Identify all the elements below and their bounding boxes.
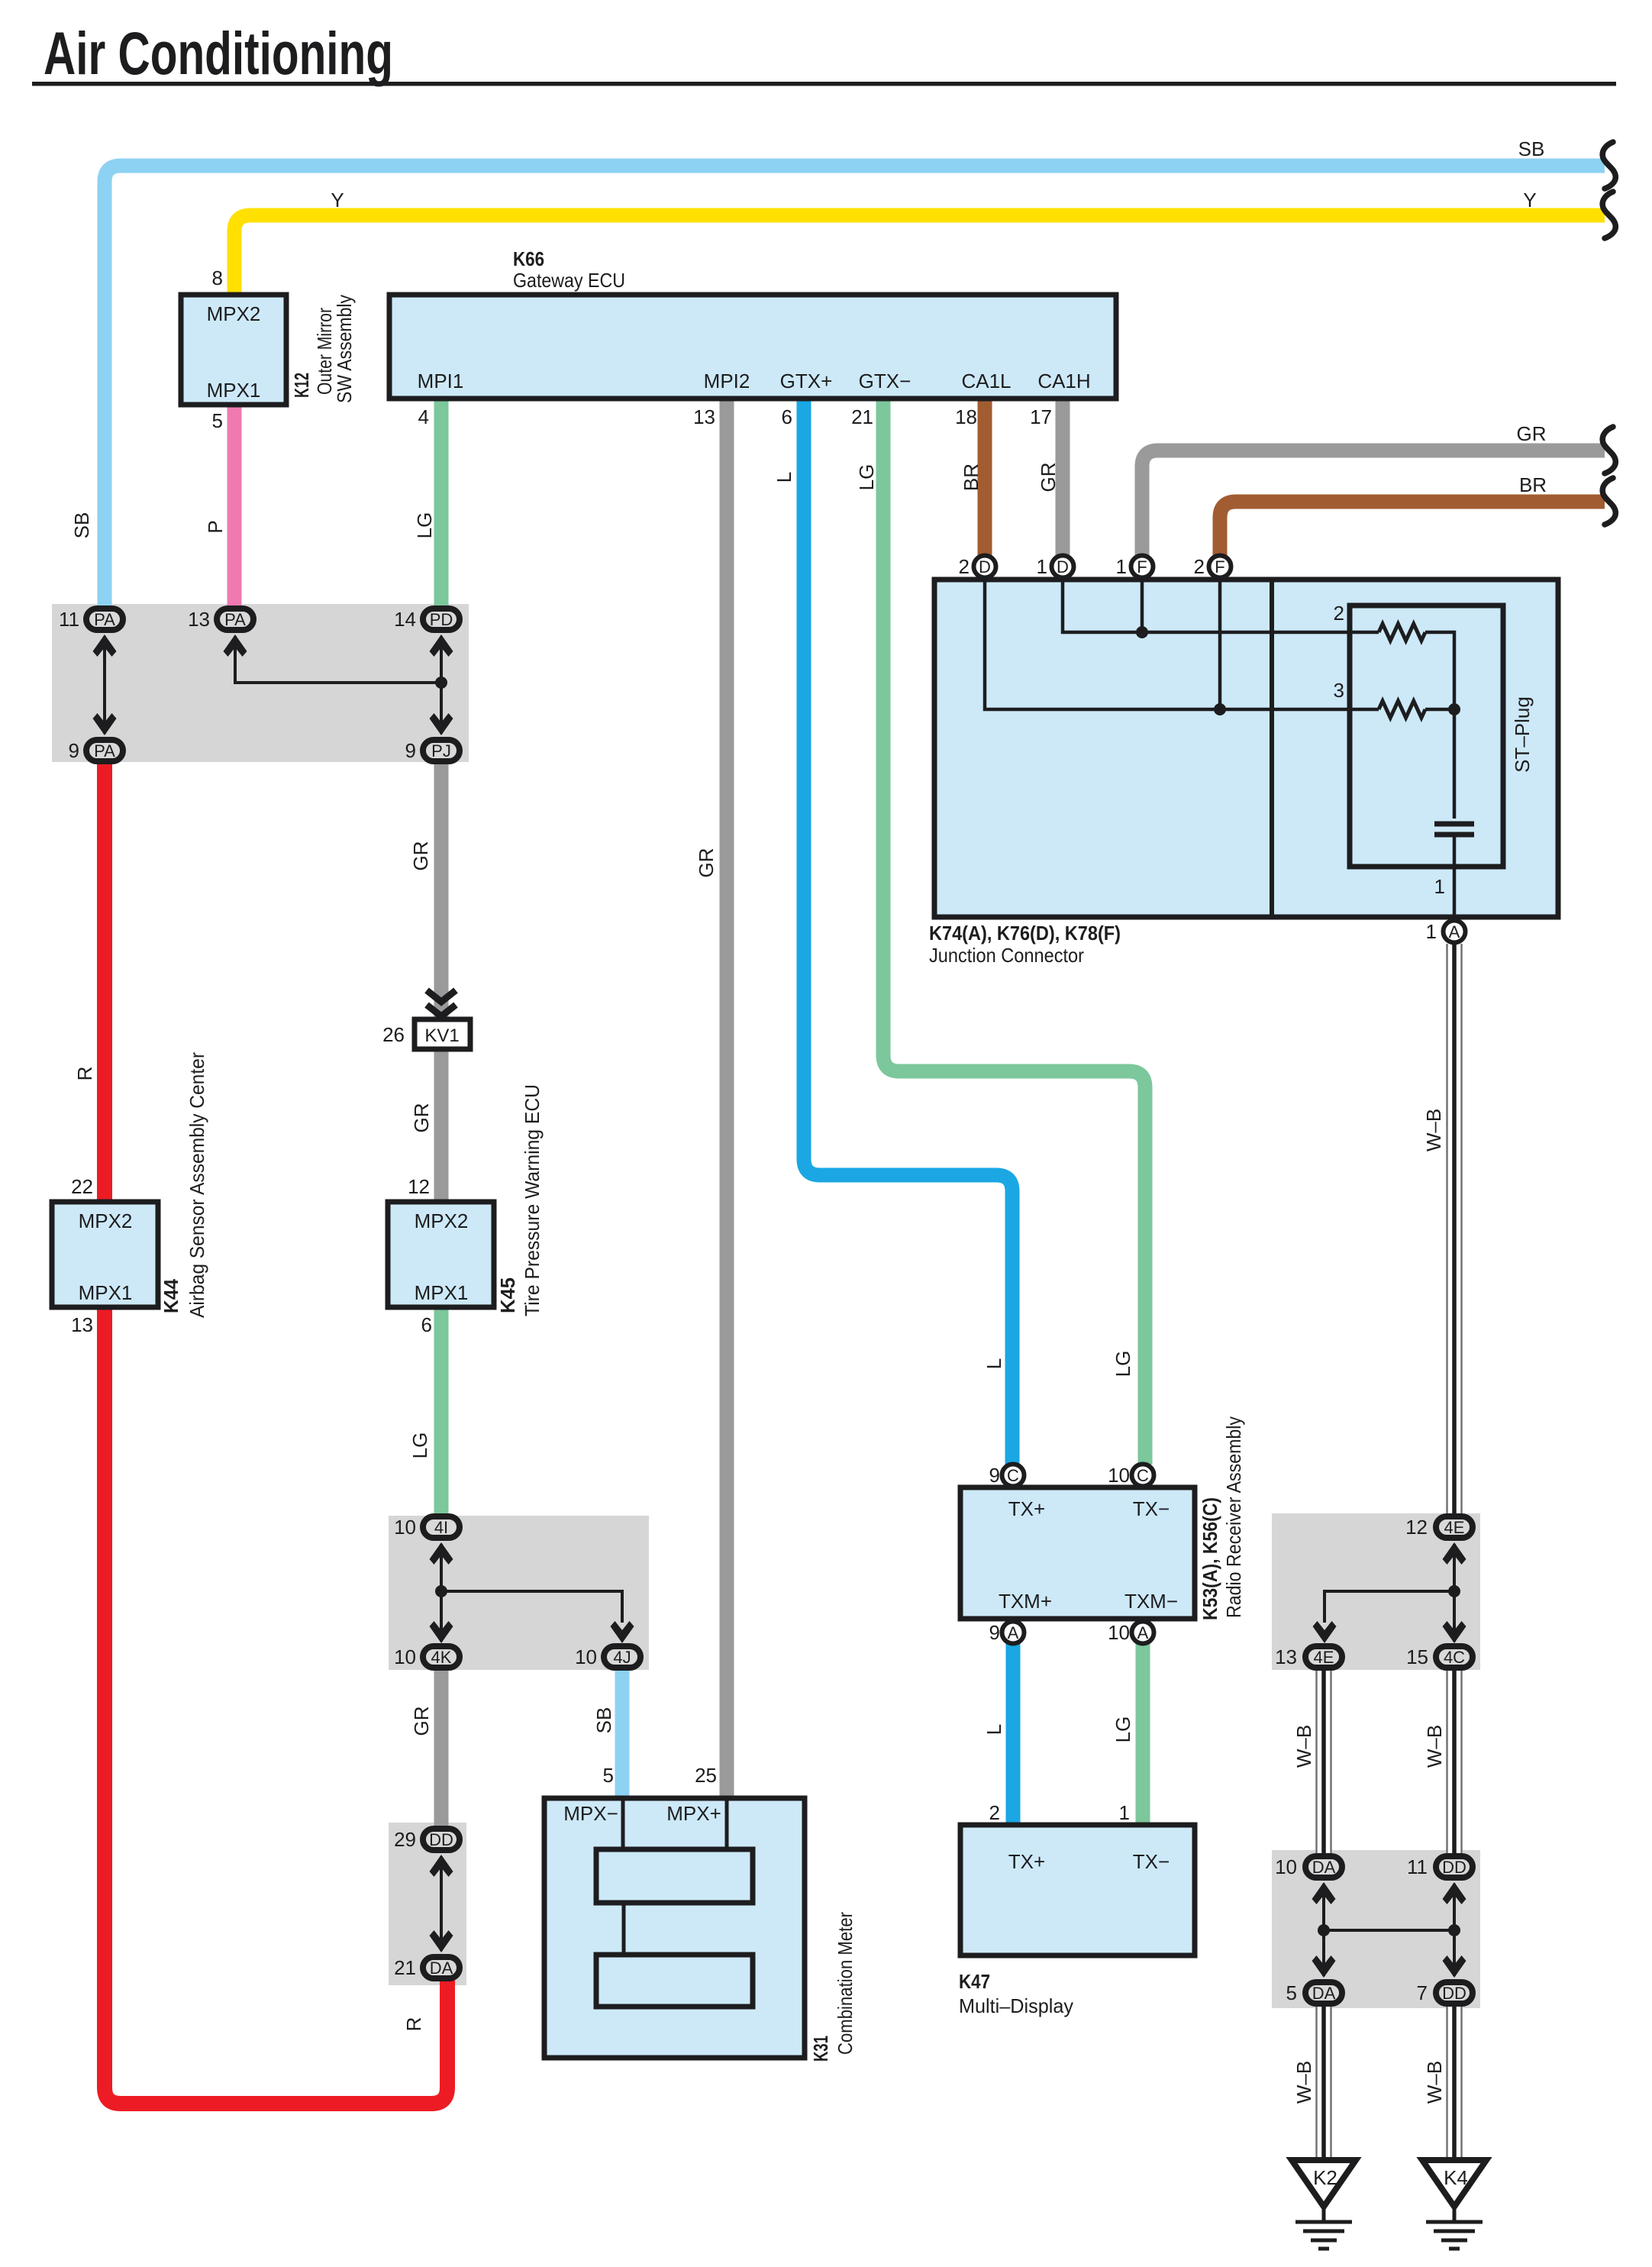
capacitor ST-Plug plate bottom (1434, 832, 1474, 838)
svg-text:W–B: W–B (1423, 2061, 1446, 2104)
wire GR 4K to DD 29 (434, 1668, 449, 1827)
junction circle A pin 1 (1444, 921, 1466, 943)
svg-text:C: C (1007, 1466, 1019, 1485)
svg-text:Junction Connector: Junction Connector (929, 944, 1084, 967)
svg-text:Tire Pressure Warning ECU: Tire Pressure Warning ECU (521, 1084, 544, 1316)
svg-text:DA: DA (1312, 1984, 1336, 2003)
splice node link DA-DD (1324, 1929, 1454, 1932)
splice arrows PA11-PA9 (93, 635, 117, 735)
wire GR CA1H pin 17 to junction D (1056, 397, 1070, 556)
splice arrows DA10-DA5 (1312, 1882, 1336, 1978)
svg-text:Multi–Display: Multi–Display (959, 1994, 1073, 2017)
svg-text:21: 21 (394, 1956, 416, 1979)
svg-text:C: C (1137, 1466, 1149, 1485)
wire W-B junction A to 4E 12 (1447, 944, 1462, 1515)
junction wire from F pin2 (1218, 580, 1222, 709)
junction wire from D pin1 row2 (1063, 580, 1379, 632)
svg-text:K66: K66 (513, 247, 544, 270)
svg-text:MPX+: MPX+ (666, 1802, 721, 1825)
svg-text:W–B: W–B (1423, 1725, 1446, 1768)
svg-text:Combination Meter: Combination Meter (834, 1912, 857, 2055)
svg-text:A: A (1449, 922, 1460, 941)
connector oval PA pin 9 (86, 740, 123, 761)
ground K4 (1422, 2160, 1486, 2249)
connector oval DD pin 7 (1436, 1982, 1473, 2004)
svg-text:DD: DD (429, 1830, 453, 1849)
junction connector K74/K76/K78 body (934, 580, 1558, 917)
break symbol SB wire (1602, 142, 1615, 189)
wire LG GTX- pin 21 to radio 10 C (883, 397, 1145, 1465)
connector oval PA pin 11 (86, 609, 123, 630)
meter K31 Combination Meter (544, 1798, 805, 2058)
svg-text:5: 5 (1286, 1981, 1297, 2004)
svg-text:GR: GR (695, 848, 718, 878)
connector oval 4E pin 12 (1436, 1516, 1473, 1538)
wire SB from pin 11 PA to right edge (105, 166, 1605, 606)
svg-text:Y: Y (1523, 189, 1536, 212)
svg-text:P: P (204, 520, 227, 533)
svg-text:CA1L: CA1L (961, 370, 1011, 392)
svg-text:12: 12 (408, 1175, 430, 1198)
svg-text:TX−: TX− (1133, 1497, 1170, 1520)
svg-text:LG: LG (855, 464, 878, 491)
svg-text:1: 1 (1119, 1801, 1130, 1824)
break symbol BR wire (1602, 478, 1615, 525)
svg-text:D: D (1057, 557, 1069, 576)
svg-text:K12: K12 (290, 373, 313, 398)
svg-text:GR: GR (1037, 463, 1060, 492)
connector oval DD pin 11 (1436, 1856, 1473, 1878)
harness band PA/PD/PJ (52, 604, 469, 762)
svg-text:TX+: TX+ (1008, 1497, 1045, 1520)
svg-text:PD: PD (430, 610, 453, 629)
svg-text:F: F (1215, 557, 1224, 576)
K31 internal link (622, 1903, 626, 1955)
svg-text:15: 15 (1406, 1645, 1428, 1668)
connector oval DD pin 29 (423, 1829, 460, 1850)
wire LG radio TXM- to K47 TX- (1136, 1643, 1150, 1826)
wire W-B DD 7 to ground K4 (1447, 2005, 1462, 2160)
svg-text:10: 10 (394, 1516, 416, 1539)
svg-text:2: 2 (989, 1801, 1000, 1824)
capacitor ST-Plug plate top (1434, 822, 1474, 827)
svg-text:DA: DA (1312, 1858, 1336, 1877)
svg-text:1: 1 (1116, 555, 1127, 578)
splice arrow branch to 4J (441, 1591, 634, 1643)
svg-text:GTX−: GTX− (859, 370, 912, 392)
svg-text:SB: SB (1518, 137, 1545, 160)
connector oval 4E pin 13 (1305, 1646, 1342, 1668)
svg-text:12: 12 (1405, 1516, 1428, 1539)
svg-text:11: 11 (1407, 1855, 1428, 1878)
svg-text:LG: LG (1112, 1716, 1134, 1743)
svg-text:K53(A), K56(C): K53(A), K56(C) (1199, 1497, 1221, 1620)
wire GR MPI2 pin 13 to K31 pin 25 (720, 397, 734, 1800)
svg-text:PA: PA (94, 610, 115, 629)
svg-text:LG: LG (1112, 1351, 1134, 1377)
harness band 4I/4K/4J (389, 1516, 649, 1670)
wire L radio TXM+ to K47 TX+ (1006, 1643, 1021, 1826)
svg-text:GR: GR (410, 1103, 433, 1133)
connector K12 Outer Mirror SW Assembly (181, 295, 286, 405)
junction wire from D pin2 row3 (985, 580, 1379, 709)
svg-text:25: 25 (695, 1764, 717, 1787)
display K47 Multi-Display (960, 1825, 1195, 1955)
harness band DA/DD right (1272, 1850, 1480, 2008)
svg-text:MPX1: MPX1 (207, 379, 261, 402)
svg-text:PA: PA (224, 610, 246, 629)
wire SB 4J to K31 pin 5 (615, 1668, 630, 1800)
break symbol Y wire (1602, 192, 1615, 238)
junction wire resistor2 to vertical (1425, 632, 1454, 819)
svg-text:4: 4 (418, 405, 429, 428)
title underline rule (32, 82, 1616, 86)
svg-text:MPX−: MPX− (563, 1802, 618, 1825)
junction circle D pin 1 (1052, 556, 1074, 578)
splice arrows 4I-4K with node (430, 1542, 453, 1643)
svg-text:GR: GR (410, 1707, 433, 1736)
svg-text:10: 10 (1108, 1464, 1130, 1487)
svg-text:MPX1: MPX1 (79, 1281, 133, 1304)
svg-text:1: 1 (1434, 875, 1445, 898)
svg-text:TX−: TX− (1133, 1850, 1170, 1873)
junction wire resistor3 to vertical (1425, 708, 1454, 712)
svg-text:BR: BR (960, 463, 982, 491)
svg-text:TX+: TX+ (1008, 1850, 1045, 1873)
wire LG MPI1 pin 4 to PD 14 (434, 397, 449, 607)
svg-text:Airbag Sensor Assembly Center: Airbag Sensor Assembly Center (186, 1052, 208, 1318)
junction node F1 row2 (1136, 626, 1148, 638)
svg-text:13: 13 (188, 608, 210, 631)
svg-text:7: 7 (1417, 1981, 1428, 2004)
svg-text:LG: LG (413, 512, 436, 539)
ECU K66 Gateway ECU (389, 295, 1116, 399)
junction wire capacitor to pin 1 (1453, 835, 1457, 919)
harness band DD/DA left (389, 1823, 466, 1985)
svg-text:K74(A), K76(D), K78(F): K74(A), K76(D), K78(F) (929, 922, 1121, 945)
connector oval 4K pin 10 (423, 1646, 460, 1668)
junction connector divider (1270, 580, 1274, 917)
connector oval DA pin 5 (1305, 1982, 1342, 2004)
svg-text:21: 21 (851, 405, 873, 428)
junction wire from F pin1 (1141, 580, 1144, 632)
svg-text:DD: DD (1442, 1858, 1466, 1877)
svg-text:4J: 4J (613, 1648, 631, 1667)
K31 internal lead from pin 25 (725, 1798, 729, 1849)
svg-text:L: L (982, 1724, 1005, 1735)
radio circle C pin 9 (1002, 1465, 1024, 1487)
svg-text:K44: K44 (160, 1278, 182, 1313)
connector K45 Tire Pressure Warning ECU (388, 1202, 494, 1307)
svg-text:6: 6 (421, 1313, 432, 1336)
svg-text:5: 5 (603, 1764, 614, 1787)
svg-text:9: 9 (69, 739, 79, 762)
svg-text:Radio Receiver Assembly: Radio Receiver Assembly (1222, 1416, 1245, 1618)
junction node F2 row3 (1214, 703, 1226, 715)
svg-text:9: 9 (405, 739, 416, 762)
svg-text:PJ: PJ (431, 741, 451, 761)
svg-text:SB: SB (592, 1707, 615, 1734)
svg-text:K4: K4 (1444, 2166, 1468, 2189)
svg-text:K47: K47 (959, 1970, 990, 1993)
svg-text:ST–Plug: ST–Plug (1511, 696, 1534, 773)
connector oval PD pin 14 (423, 609, 460, 630)
svg-text:TXM+: TXM+ (999, 1590, 1052, 1613)
svg-text:5: 5 (212, 409, 223, 432)
svg-text:9: 9 (989, 1464, 1000, 1487)
svg-text:17: 17 (1030, 405, 1052, 428)
connector K44 Airbag Sensor Assembly Center (52, 1202, 158, 1307)
svg-text:11: 11 (59, 608, 79, 631)
svg-text:2: 2 (1334, 602, 1344, 625)
K31 internal block upper (596, 1849, 753, 1903)
wire Y from K12 pin 8 to right edge (234, 215, 1605, 296)
resistor ST-Plug row 3 (1379, 701, 1425, 718)
wire W-B 4C 15 to DD 11 (1447, 1669, 1462, 1855)
svg-text:13: 13 (1275, 1645, 1297, 1668)
svg-text:4E: 4E (1444, 1518, 1465, 1537)
radio circle C pin 10 (1132, 1465, 1154, 1487)
svg-text:Gateway ECU: Gateway ECU (513, 269, 625, 292)
wire R from PA 9 down and right to DA 21 (105, 763, 447, 2104)
svg-text:4I: 4I (434, 1518, 448, 1537)
svg-text:A: A (1008, 1623, 1019, 1642)
svg-text:D: D (979, 557, 991, 576)
wire LG K45 pin 6 to 4I (434, 1306, 449, 1517)
svg-text:10: 10 (575, 1645, 597, 1668)
svg-text:3: 3 (1334, 679, 1344, 702)
junction circle D pin 2 (974, 556, 996, 578)
svg-text:GTX+: GTX+ (780, 370, 833, 392)
svg-text:PA: PA (94, 741, 115, 761)
svg-text:10: 10 (1275, 1855, 1297, 1878)
svg-text:TXM−: TXM− (1124, 1590, 1178, 1613)
svg-text:CA1H: CA1H (1037, 370, 1090, 392)
svg-text:SW Assembly: SW Assembly (333, 295, 356, 403)
wire P K12 pin 5 to PA 13 (227, 403, 242, 607)
svg-text:22: 22 (71, 1175, 93, 1198)
svg-text:13: 13 (71, 1313, 93, 1336)
wire W-B DA 5 to ground K2 (1317, 2005, 1331, 2160)
connector oval 4I pin 10 (423, 1516, 460, 1538)
svg-text:K31: K31 (809, 2036, 832, 2062)
svg-text:1: 1 (1426, 920, 1437, 943)
connector KV1 box (415, 1019, 470, 1049)
splice arrow branch to 4E13 (1313, 1591, 1455, 1643)
harness band 4E/4C right (1272, 1513, 1480, 1670)
svg-text:SB: SB (70, 512, 93, 539)
svg-text:9: 9 (989, 1621, 1000, 1644)
wire L GTX+ pin 6 to radio 9 C (804, 397, 1012, 1465)
svg-text:L: L (982, 1358, 1005, 1369)
svg-text:F: F (1137, 557, 1147, 576)
svg-text:4E: 4E (1314, 1648, 1334, 1667)
svg-text:GR: GR (409, 841, 432, 871)
splice arrows DD11-DD7 (1443, 1882, 1466, 1978)
svg-text:DD: DD (1442, 1984, 1466, 2003)
svg-text:4K: 4K (431, 1648, 452, 1667)
connector oval PJ pin 9 (423, 740, 460, 761)
svg-text:29: 29 (394, 1828, 416, 1851)
svg-text:A: A (1137, 1623, 1149, 1642)
svg-text:Air Conditioning: Air Conditioning (44, 19, 393, 87)
wire W-B 4E 13 to DA 10 (1317, 1669, 1331, 1855)
resistor ST-Plug row 2 (1379, 624, 1425, 641)
splice arrows DD29-DA21 (430, 1855, 453, 1952)
svg-text:26: 26 (382, 1023, 405, 1046)
svg-text:BR: BR (1519, 473, 1547, 496)
svg-text:W–B: W–B (1292, 2061, 1315, 2104)
double chevron into KV1 (427, 990, 456, 1016)
svg-text:DA: DA (430, 1959, 453, 1978)
connector oval 4J pin 10 (604, 1646, 640, 1668)
svg-text:R: R (402, 2017, 425, 2032)
svg-text:MPI1: MPI1 (418, 370, 464, 392)
connector oval 4C pin 15 (1436, 1646, 1473, 1668)
wire GR KV1 to K45 pin 12 (434, 1048, 449, 1203)
wire GR PJ 9 to KV1 (434, 763, 449, 1020)
radio K53/K56 Radio Receiver Assembly (960, 1487, 1195, 1619)
wire BR CA1L pin 18 to junction D (978, 397, 992, 556)
ST-Plug inner box (1350, 606, 1503, 867)
splice arrows PD14-PJ9 with node (430, 635, 453, 735)
ground K2 (1292, 2160, 1356, 2249)
connector oval PA pin 13 (217, 609, 253, 630)
svg-text:LG: LG (408, 1432, 431, 1459)
svg-text:MPI2: MPI2 (704, 370, 750, 392)
svg-text:R: R (73, 1067, 96, 1081)
radio circle A pin 10 (1132, 1622, 1154, 1644)
svg-text:4C: 4C (1444, 1648, 1465, 1667)
svg-text:13: 13 (693, 405, 715, 428)
svg-text:Y: Y (331, 189, 344, 212)
svg-text:6: 6 (782, 405, 792, 428)
svg-text:2: 2 (1194, 555, 1205, 578)
svg-text:KV1: KV1 (424, 1025, 459, 1046)
svg-text:1: 1 (1037, 555, 1047, 578)
svg-text:W–B: W–B (1292, 1725, 1315, 1768)
splice arrow PA13 branch (224, 635, 442, 683)
junction circle F pin 2 (1209, 556, 1231, 578)
svg-text:K45: K45 (496, 1277, 519, 1313)
svg-text:W–B: W–B (1422, 1109, 1445, 1151)
svg-text:MPX1: MPX1 (415, 1281, 469, 1304)
svg-text:GR: GR (1517, 422, 1547, 445)
svg-text:MPX2: MPX2 (79, 1209, 133, 1232)
junction node row3 vertical (1448, 703, 1460, 715)
K31 internal lead from pin 5 (621, 1798, 625, 1849)
svg-text:2: 2 (959, 555, 970, 578)
K31 internal block lower (596, 1955, 753, 2007)
wire BR right edge to junction F (1220, 502, 1605, 556)
svg-text:MPX2: MPX2 (207, 302, 261, 325)
svg-text:10: 10 (394, 1645, 416, 1668)
connector oval DA pin 10 (1305, 1856, 1342, 1878)
radio circle A pin 9 (1002, 1622, 1024, 1644)
svg-text:8: 8 (212, 266, 223, 289)
junction circle F pin 1 (1131, 556, 1153, 578)
svg-text:10: 10 (1108, 1621, 1130, 1644)
connector oval DA pin 21 (423, 1957, 460, 1978)
svg-text:K2: K2 (1313, 2166, 1337, 2189)
wire GR right edge to junction F (1142, 450, 1605, 556)
svg-text:14: 14 (394, 608, 416, 631)
break symbol GR wire (1602, 427, 1615, 473)
svg-text:MPX2: MPX2 (415, 1209, 469, 1232)
svg-text:18: 18 (955, 405, 977, 428)
svg-text:L: L (773, 472, 795, 483)
splice arrows 4E12 with node (1443, 1542, 1466, 1643)
